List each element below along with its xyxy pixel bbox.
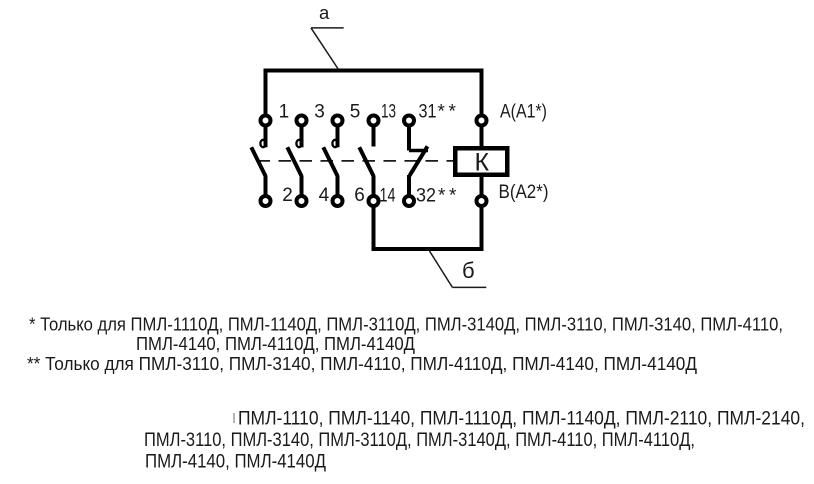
footnote line 3 [27,354,697,374]
wire B down to bottom bus [480,208,484,250]
node b leader line [430,251,487,287]
terminal B(A2*) label [499,182,549,203]
pin 31** label [419,102,457,123]
coil K label [475,148,490,176]
pin 14 label [380,186,396,207]
model list line 1 [238,408,805,430]
svg-text:2: 2 [282,185,293,206]
svg-text:13: 13 [381,102,396,123]
auxiliary NC contact 31-32 [404,116,428,207]
terminal A(A1*) label [500,102,547,123]
svg-text:К: К [475,148,490,176]
svg-text:5: 5 [350,102,361,123]
main contact 3-4 [287,116,306,207]
svg-text:ПМЛ-4140, ПМЛ-4140Д: ПМЛ-4140, ПМЛ-4140Д [145,451,326,473]
svg-text:В(А2*): В(А2*) [499,182,549,203]
pin 13 label [381,102,396,123]
wire bottom bus [374,247,482,251]
svg-text:6: 6 [354,185,365,206]
main contact 1-2 [251,116,270,207]
svg-text:* Только для ПМЛ-1110Д, ПМЛ-11: * Только для ПМЛ-1110Д, ПМЛ-1140Д, ПМЛ-3… [29,315,783,335]
wire A to coil [480,127,484,148]
svg-text:а: а [319,2,330,23]
svg-text:ПМЛ-3110, ПМЛ-3140, ПМЛ-3110Д,: ПМЛ-3110, ПМЛ-3140, ПМЛ-3110Д, ПМЛ-3140Д… [144,429,695,451]
wire left drop to contact 1 [264,71,268,116]
node a label [319,2,330,23]
stray scan tick [233,413,235,423]
auxiliary NO contact 13-14 [359,116,378,207]
dashed mechanical link line [258,160,454,162]
svg-text:ПМЛ-4140, ПМЛ-4110Д, ПМЛ-4140Д: ПМЛ-4140, ПМЛ-4110Д, ПМЛ-4140Д [136,334,415,354]
svg-text:ПМЛ-1110, ПМЛ-1140, ПМЛ-1110Д,: ПМЛ-1110, ПМЛ-1140, ПМЛ-1110Д, ПМЛ-1140Д… [238,408,805,430]
wire right drop to terminal A [480,71,484,116]
pin 3 label [314,102,325,123]
pin 1 label [279,102,290,123]
node a leader line [311,28,344,70]
wire top bus [266,69,482,73]
main contact 5-6 [323,116,342,207]
svg-text:А(А1*): А(А1*) [500,102,547,123]
svg-text:1: 1 [279,102,290,123]
model list line 3 [145,451,326,473]
pin 5 label [350,102,361,123]
svg-text:3: 3 [314,102,325,123]
pin 6 label [354,185,365,206]
wire pin 14 down to bottom bus [372,208,376,250]
node b label [462,258,475,283]
terminal B circle [477,196,487,206]
svg-text:31**: 31** [419,102,457,123]
pin 4 label [319,185,330,206]
svg-text:** Только для ПМЛ-3110, ПМЛ-31: ** Только для ПМЛ-3110, ПМЛ-3140, ПМЛ-41… [27,354,697,374]
model list line 2 [144,429,695,451]
pin 2 label [282,185,293,206]
footnote line 2 [136,334,415,354]
wire coil to B [480,177,484,195]
coil K box [455,148,507,175]
pin 32** label [416,186,457,207]
terminal A circle [477,116,487,126]
svg-text:б: б [462,258,475,283]
footnote line 1 [29,315,783,335]
svg-text:14: 14 [380,186,396,207]
svg-text:4: 4 [319,185,330,206]
